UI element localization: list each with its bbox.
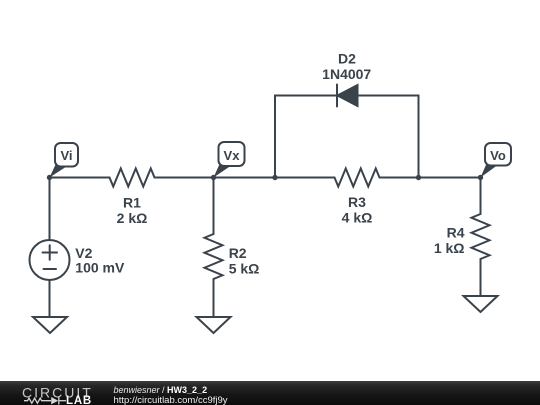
resistor R2 [205, 234, 223, 279]
svg-text:Vi: Vi [60, 148, 72, 163]
wire Vo node down to R4 top lead [480, 178, 482, 215]
diode D2 cathode bar [336, 85, 338, 107]
junction dot diode branch left [272, 175, 277, 180]
voltage source V2 circle [30, 240, 70, 280]
svg-text:R2: R2 [229, 245, 247, 261]
svg-text:D2: D2 [338, 51, 356, 67]
svg-text:1N4007: 1N4007 [322, 66, 371, 82]
junction dot diode branch right [416, 175, 421, 180]
node flag Vo [481, 143, 512, 178]
diode D2 triangle [338, 85, 358, 106]
svg-text:5 kΩ: 5 kΩ [229, 260, 260, 276]
wire diode right junction to Vo node [419, 177, 481, 179]
wire Vx node to diode branch left junction [214, 177, 276, 179]
CircuitLab logo trace with resistor and diode [24, 397, 66, 405]
svg-text:http://circuitlab.com/cc9fj9y: http://circuitlab.com/cc9fj9y [114, 395, 228, 405]
wire R2 bottom lead to ground [213, 279, 215, 317]
wire R1 right lead to Vx node [155, 177, 214, 179]
resistor R4 [472, 214, 490, 259]
resistor R1 [110, 169, 155, 187]
wire R4 bottom lead to ground [480, 259, 482, 296]
V2 minus sign [44, 268, 57, 270]
ground under V2 [33, 317, 67, 333]
svg-text:2 kΩ: 2 kΩ [117, 210, 148, 226]
svg-text:1 kΩ: 1 kΩ [434, 240, 465, 256]
wire Vx node down to R2 top lead [213, 178, 215, 235]
wire diode left junction to R3 left lead [275, 177, 335, 179]
wire V2 bottom to ground [49, 280, 51, 317]
ground under R4 [464, 296, 498, 312]
svg-text:100 mV: 100 mV [75, 260, 125, 276]
svg-text:R3: R3 [348, 194, 366, 210]
junction dot node Vi [47, 175, 52, 180]
V2 plus sign [43, 245, 58, 259]
svg-text:LAB: LAB [66, 395, 92, 405]
node flag Vx [214, 142, 245, 178]
junction dot node Vx [211, 175, 216, 180]
wire diode branch left vertical [275, 96, 337, 178]
wire diode branch right vertical [358, 96, 419, 178]
svg-text:benwiesner / HW3_2_2: benwiesner / HW3_2_2 [114, 385, 208, 395]
wire R3 right lead to diode right junction [380, 177, 419, 179]
svg-text:4 kΩ: 4 kΩ [342, 209, 373, 225]
resistor R3 [335, 169, 380, 187]
svg-text:R4: R4 [447, 225, 465, 241]
junction dot node Vo [478, 175, 483, 180]
wire Vi node to R1 left lead [50, 177, 110, 179]
wire Vi node down to V2 top [49, 178, 51, 241]
ground under R2 [197, 317, 231, 333]
svg-text:Vx: Vx [224, 148, 241, 163]
svg-text:Vo: Vo [490, 148, 506, 163]
footer bar [0, 381, 540, 405]
node flag Vi [50, 143, 79, 178]
svg-text:V2: V2 [75, 245, 92, 261]
svg-text:R1: R1 [123, 195, 141, 211]
